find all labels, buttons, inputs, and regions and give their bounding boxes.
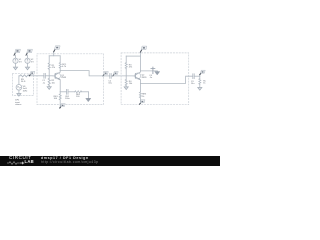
resistor R4 xyxy=(125,76,133,87)
svg-text:100: 100 xyxy=(76,96,80,98)
wire xyxy=(140,70,157,72)
svg-text:47k: 47k xyxy=(52,67,56,69)
wire collector xyxy=(59,71,61,72)
wire emitter xyxy=(139,80,141,84)
wire collector xyxy=(139,56,141,72)
wire xyxy=(60,71,103,76)
resistor R1 xyxy=(48,56,56,76)
svg-text:4.7k: 4.7k xyxy=(62,66,67,68)
svg-text:100: 100 xyxy=(54,98,58,100)
svg-text:10u: 10u xyxy=(191,83,195,85)
ground xyxy=(124,87,128,90)
net flag VCC 1 xyxy=(54,46,60,56)
svg-text:1k: 1k xyxy=(203,83,206,85)
CircuitLab logo xyxy=(9,155,32,160)
svg-text:100u: 100u xyxy=(65,98,70,100)
voltage source V1 xyxy=(13,58,23,63)
transistor Q1 xyxy=(53,72,67,80)
net flag vin xyxy=(29,71,34,75)
svg-text:source: source xyxy=(15,103,22,106)
ground xyxy=(47,87,51,90)
wire xyxy=(103,75,109,77)
svg-text:.1u: .1u xyxy=(149,77,153,79)
wire xyxy=(18,76,20,85)
capacitor C4 xyxy=(149,67,155,79)
svg-text:10k: 10k xyxy=(52,82,56,84)
footer bar xyxy=(0,156,220,166)
ground xyxy=(13,67,17,70)
net flag V+ xyxy=(14,49,20,58)
wire xyxy=(87,92,89,99)
wire xyxy=(126,55,140,57)
svg-text:10u: 10u xyxy=(108,83,112,85)
net flag V- xyxy=(26,49,32,58)
resistor RC1 xyxy=(59,56,67,71)
capacitor CE1 xyxy=(65,89,75,100)
wire xyxy=(60,91,66,93)
svg-text:50 Ω: 50 Ω xyxy=(21,81,26,83)
net flag vout1 xyxy=(103,72,108,76)
wire xyxy=(156,71,158,72)
source box (dashed) xyxy=(13,73,34,95)
capacitor C3 xyxy=(191,74,200,85)
capacitor C1 xyxy=(42,73,53,84)
resistor R2 xyxy=(48,76,56,87)
sine source VS xyxy=(16,85,27,93)
resistor R3 xyxy=(125,56,133,76)
wire xyxy=(140,76,192,83)
resistor RE1 xyxy=(54,92,62,108)
wire xyxy=(29,75,43,77)
ground xyxy=(155,72,160,75)
amplifier box 1 (dashed) xyxy=(37,54,104,105)
caption xyxy=(15,100,22,106)
svg-text:3 V: 3 V xyxy=(31,61,35,63)
wire xyxy=(15,63,17,67)
ground xyxy=(198,88,202,91)
svg-text:2N39: 2N39 xyxy=(142,77,148,79)
resistor RE3 xyxy=(139,83,147,103)
wire xyxy=(18,90,20,93)
ground xyxy=(17,94,21,97)
resistor RL xyxy=(199,76,207,87)
resistor RE2 xyxy=(75,91,89,98)
wire xyxy=(27,63,29,67)
net flag vout xyxy=(200,70,205,76)
resistor RS xyxy=(19,75,29,83)
svg-text:10k: 10k xyxy=(129,83,133,85)
svg-text:1k: 1k xyxy=(142,96,145,98)
capacitor C2 xyxy=(108,74,112,85)
transistor Q2 xyxy=(133,72,147,80)
net flag gnd1 xyxy=(60,104,65,108)
ground xyxy=(25,67,29,70)
svg-text:47k: 47k xyxy=(129,67,133,69)
amplifier box 2 (dashed) xyxy=(121,53,189,105)
svg-text:.1u: .1u xyxy=(42,82,46,84)
wire emitter xyxy=(59,80,61,92)
wire xyxy=(111,75,113,77)
wire xyxy=(49,55,60,57)
svg-text:2N39: 2N39 xyxy=(61,77,67,79)
wire xyxy=(113,75,133,77)
net flag vin2 xyxy=(113,72,118,76)
net flag VCC 2 xyxy=(140,46,146,56)
svg-text:3 V: 3 V xyxy=(19,61,23,63)
svg-text:1kHz: 1kHz xyxy=(23,90,28,92)
net flag gnd2 xyxy=(140,100,145,104)
voltage source V2 xyxy=(25,58,35,63)
ground xyxy=(86,98,91,101)
